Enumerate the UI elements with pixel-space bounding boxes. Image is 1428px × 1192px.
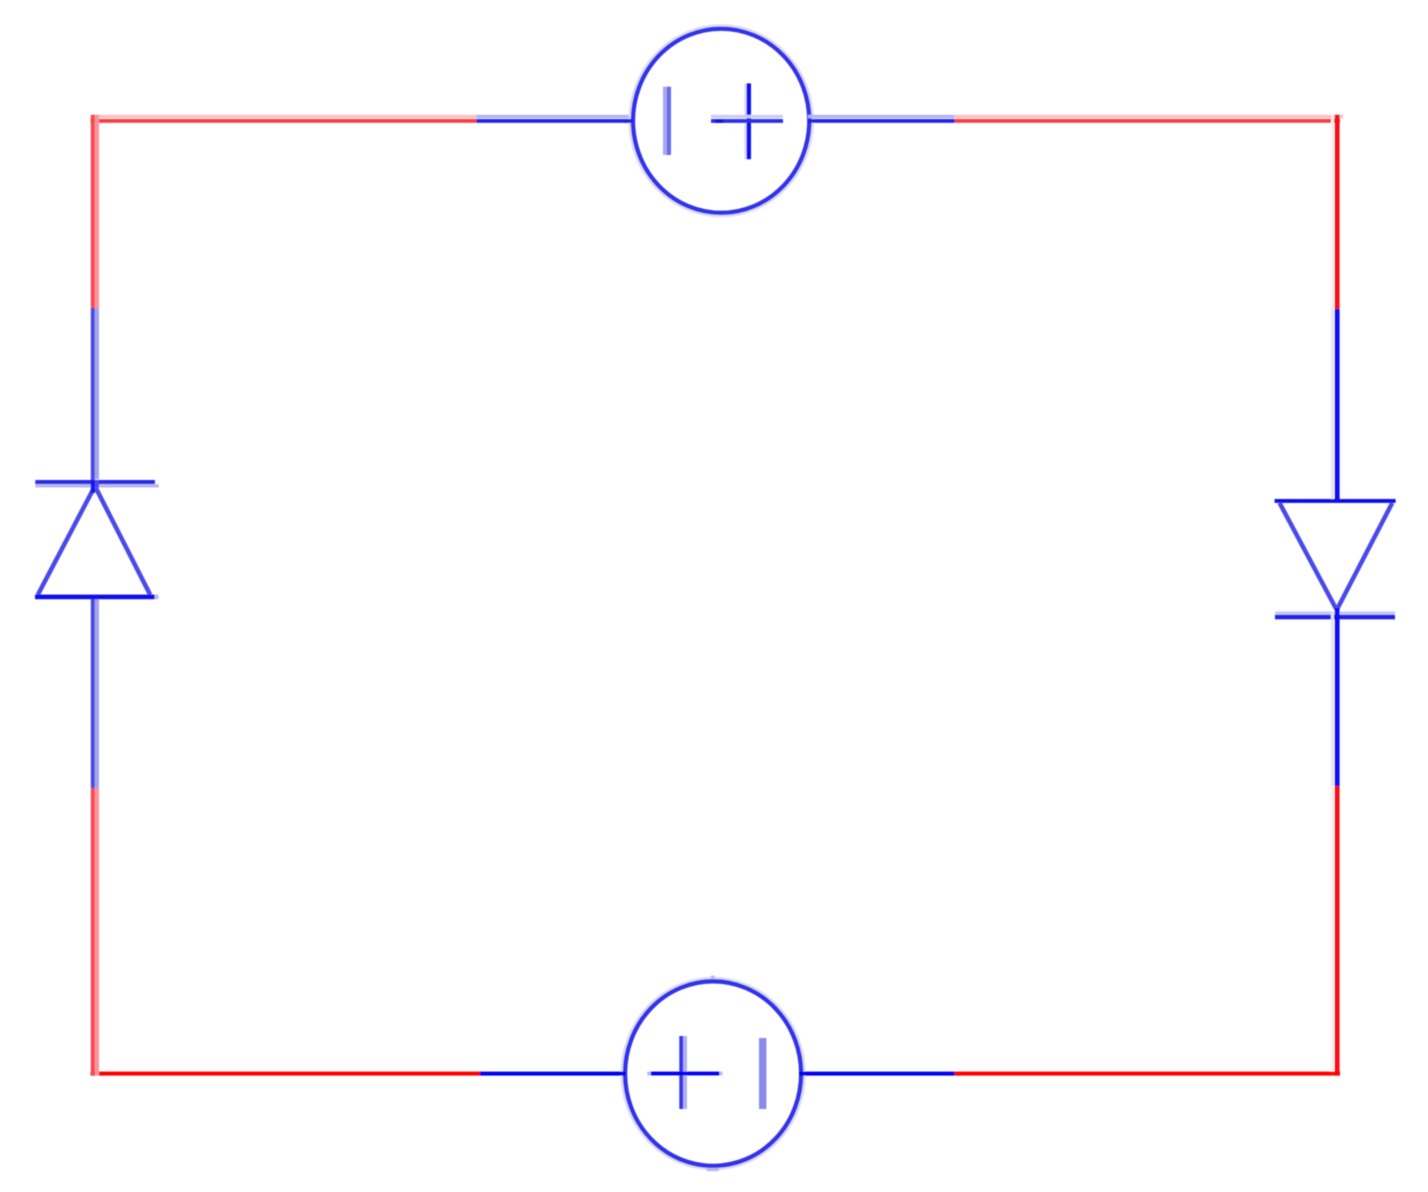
wire lead V2 left (blue) [480,1072,626,1076]
wire lead D1 bottom (blue vertical) [91,596,99,788]
wire left lower (red vertical) [91,788,99,1076]
wire lead D1 top (blue vertical) [91,308,99,493]
voltage source V2 [622,976,808,1172]
D1 anode base line [35,595,155,600]
V2 circle [622,978,805,1169]
D1 triangle right side [96,488,150,595]
D2 anode base line [1275,499,1396,503]
voltage source V1 [624,25,813,216]
V1 plus sign horizontal [711,115,783,119]
wire lead V2 right (blue) [800,1072,955,1076]
V1 negative plate bar [663,87,667,155]
wire top-left (red, node A) [91,115,478,123]
wire lead D2 bottom (blue vertical) [1331,608,1340,786]
wire lead D2 top (blue vertical) [1331,309,1340,500]
wire right lower (red vertical) [1331,786,1340,1076]
D2 triangle right side [1337,503,1392,609]
V1 circle [630,25,813,216]
diode D1 (left, pointing up) [35,480,159,599]
D2 triangle left side [1280,503,1337,609]
wire lead V1 right (blue) [808,115,955,123]
V2 plus sign horizontal [647,1072,651,1076]
D1 triangle left side [38,488,94,595]
V2 negative plate bar [759,1038,766,1109]
V2 plus sign vertical [679,1036,683,1109]
wire bottom-left (red, node D) [91,1072,481,1076]
wire right upper (red vertical) [1331,115,1340,309]
wire bottom-right (red, node C) [955,1072,1341,1076]
V1 plus sign vertical [744,83,746,159]
wire left upper (red vertical) [91,115,99,308]
D2 cathode bar [1275,611,1395,614]
wire lead V1 left (blue) [477,115,634,123]
wire top-right (red, node B) [955,115,1344,123]
D1 cathode bar [35,480,155,484]
diode D2 (right, pointing down) [1275,499,1396,619]
